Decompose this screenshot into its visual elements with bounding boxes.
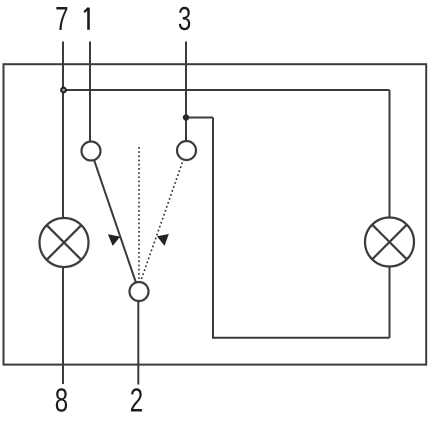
junction dot node 3 bbox=[183, 114, 189, 120]
svg-text:2: 2 bbox=[130, 383, 143, 420]
wire node7 horizontal to right bbox=[63, 89, 390, 91]
contact circle terminal 1 bbox=[82, 142, 101, 161]
wire terminal 1 down to contact bbox=[89, 42, 91, 143]
arrow right (movement indicator) bbox=[157, 234, 169, 246]
lamp E2 bbox=[365, 218, 414, 267]
contact circle common pole bbox=[130, 282, 149, 301]
wire terminal 7 down to lamp E1 bbox=[62, 42, 64, 219]
junction dot node 7 bbox=[61, 88, 66, 93]
wire node3 horizontal stub bbox=[186, 117, 213, 119]
contact circle terminal 3 bbox=[177, 141, 196, 160]
terminal label 1 bbox=[84, 8, 88, 30]
lamp E1 bbox=[40, 218, 89, 267]
switch blade dashed middle position bbox=[138, 147, 140, 282]
wire down to lamp E2 top bbox=[389, 90, 391, 219]
svg-text:7: 7 bbox=[55, 2, 68, 39]
svg-text:8: 8 bbox=[55, 383, 68, 420]
wire lamp E1 down to terminal 8 bbox=[62, 267, 64, 385]
switch blade solid (position to contact 1) bbox=[91, 151, 139, 292]
wire common pole down to terminal 2 bbox=[137, 300, 139, 385]
wire terminal 3 down to contact bbox=[185, 42, 187, 142]
switch blade dashed (position to contact 3) bbox=[139, 151, 187, 287]
wire lamp E2 bottom up bbox=[389, 266, 391, 338]
wire vertical x213 bbox=[212, 118, 214, 339]
arrow left (movement indicator) bbox=[108, 234, 120, 246]
svg-text:3: 3 bbox=[178, 2, 191, 39]
enclosure box bbox=[4, 64, 427, 364]
wire horizontal y337 bbox=[213, 337, 390, 339]
